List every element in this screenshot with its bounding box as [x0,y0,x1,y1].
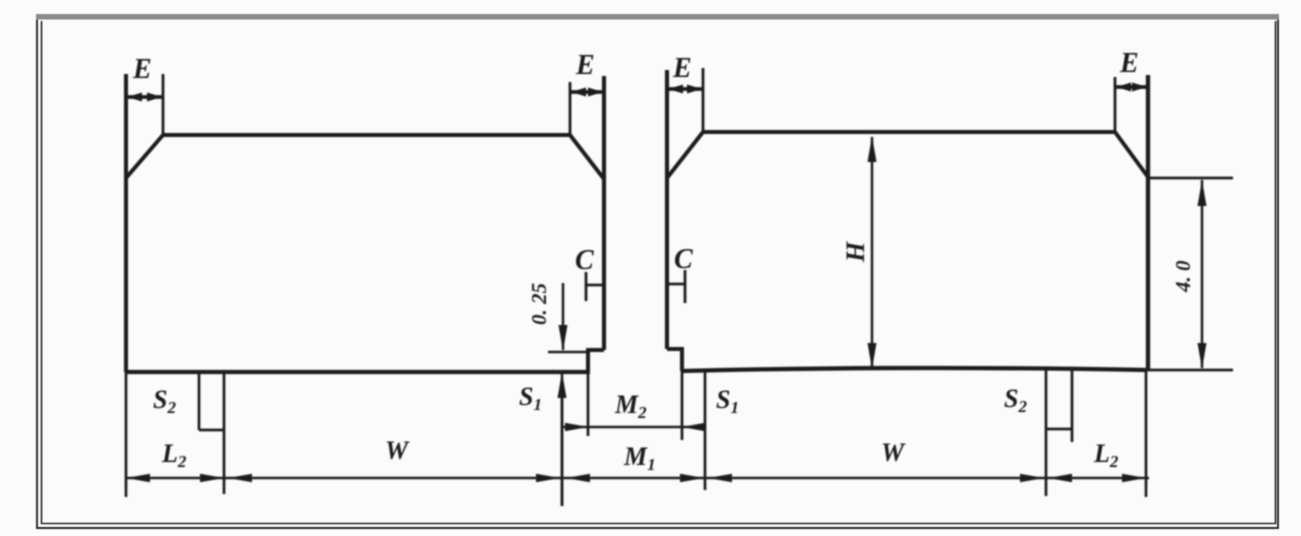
right body inner edge [665,70,669,349]
extension line L2/W boundary right [1045,370,1048,496]
left body outer chamfer [126,135,163,178]
label W left [385,436,410,465]
svg-text:E: E [672,53,692,84]
right body right edge [1146,75,1150,370]
svg-text:S1: S1 [519,382,542,414]
label E right-outer [1119,48,1139,79]
svg-text:H: H [841,241,870,263]
dimension M2 line [563,423,706,431]
mark C left with tick [586,272,604,301]
svg-text:4. 0: 4. 0 [1171,260,1195,293]
extension line left outer [125,372,128,497]
left body top edge [163,133,570,137]
dimension 0.25 lower arrow [558,372,567,506]
svg-text:L2: L2 [161,439,187,471]
dimension E right-inner [668,68,703,132]
label S1 left [519,382,542,414]
label C left [575,245,594,276]
dimension 4.0 [1198,180,1207,369]
label E left-outer [132,54,152,85]
dimension E right-outer [1115,77,1147,132]
right body inner chamfer [667,132,703,178]
label M2 [614,390,647,422]
svg-text:W: W [881,438,906,467]
svg-text:E: E [1119,48,1139,79]
left body step [588,350,604,372]
svg-text:C: C [575,245,594,276]
arrows W left [228,474,560,482]
arrows W right [708,474,1044,482]
extension line S1 right / M1 right [704,371,707,490]
arrows M1 [566,474,704,482]
arrows L2 right [1048,474,1146,482]
svg-text:S2: S2 [1004,384,1027,416]
label E left-inner [575,50,595,81]
svg-text:M1: M1 [623,442,656,474]
arrows L2 left [126,474,224,482]
label S2 left [153,385,176,417]
mark C right with tick [668,270,685,303]
extension line M2 right [681,371,684,440]
right body step [667,349,682,371]
svg-text:C: C [674,244,693,275]
dimension 4.0 extension bottom [1146,369,1233,372]
svg-text:S2: S2 [153,385,176,417]
left body left edge [124,74,128,372]
svg-text:M2: M2 [614,390,647,422]
main dimension line bottom [126,477,1149,480]
label L2 left [161,439,187,471]
extension line S1 left / M1 left [561,396,564,506]
label 0.25 [527,283,551,325]
label W right [881,438,906,467]
left body inner edge [602,76,606,350]
dimension H [868,136,877,369]
dimension E left-inner [570,82,603,135]
bracket S2 right [1046,370,1072,442]
svg-text:0. 25: 0. 25 [527,283,551,325]
right body top edge [703,130,1115,134]
dimension 0.25 upper arrow [548,283,588,352]
dimension E left-outer [127,74,163,135]
left body bottom edge [126,370,590,374]
left body inner chamfer [570,135,604,179]
svg-text:S1: S1 [716,385,739,417]
right body outer chamfer [1115,132,1148,177]
label E right-inner [672,53,692,84]
dimension 4.0 extension top [1148,177,1233,180]
label 4.0 [1171,260,1195,293]
svg-text:E: E [132,54,152,85]
svg-text:E: E [575,50,595,81]
extension line right outer [1145,370,1148,497]
label H [841,241,870,263]
bracket S2 left [199,372,224,430]
label L2 right [1093,439,1119,471]
label C right [674,244,693,275]
extension line L2/W boundary left [223,372,226,494]
label S1 right [716,385,739,417]
label M1 [623,442,656,474]
svg-text:L2: L2 [1093,439,1119,471]
svg-text:W: W [385,436,410,465]
right body bottom edge [682,368,1146,371]
label S2 right [1004,384,1027,416]
extension line M2 left [587,372,590,436]
